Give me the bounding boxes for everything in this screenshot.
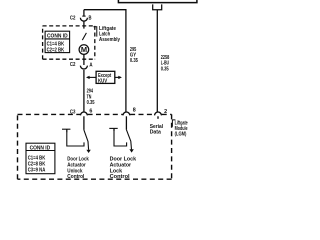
power distribution box (cut off at top) bbox=[118, 0, 196, 3]
Except KUV tag with arrows bbox=[87, 76, 96, 78]
connector C3 terminal 6 (cap) bbox=[81, 112, 88, 115]
label Liftgate Module (LGM) with leader bracket bbox=[172, 120, 175, 127]
liftgate module dashed box bbox=[18, 114, 172, 179]
lock switch blade bbox=[126, 130, 131, 150]
svg-text:Control: Control bbox=[110, 174, 130, 180]
svg-text:0.35: 0.35 bbox=[130, 58, 139, 64]
svg-text:Data: Data bbox=[150, 129, 162, 135]
svg-text:8: 8 bbox=[133, 108, 136, 114]
svg-text:C2: C2 bbox=[70, 15, 76, 21]
label 2258 L-BU 0.35 bbox=[161, 55, 170, 72]
wire 295 stub below terminal 8 bbox=[125, 116, 127, 129]
svg-text:(LGM): (LGM) bbox=[175, 132, 187, 138]
label Liftgate Latch Assembly with leader bracket bbox=[93, 27, 96, 37]
svg-text:B: B bbox=[89, 15, 92, 21]
unlock switch blade bbox=[84, 130, 89, 150]
svg-text:0.35: 0.35 bbox=[161, 66, 170, 72]
label Door Lock Actuator Lock Control bbox=[110, 156, 137, 180]
serial data stub into module bbox=[157, 116, 159, 119]
svg-text:CONN ID: CONN ID bbox=[47, 34, 68, 40]
svg-text:CONN ID: CONN ID bbox=[30, 145, 51, 151]
svg-text:Assembly: Assembly bbox=[99, 37, 121, 43]
svg-text:6: 6 bbox=[89, 109, 92, 115]
label 294 TN 0.35 bbox=[87, 89, 96, 106]
svg-text:0.35: 0.35 bbox=[87, 100, 96, 106]
svg-text:KUV: KUV bbox=[98, 78, 108, 84]
wire serial data vertical 2258 bbox=[156, 10, 158, 112]
CONN ID table (module) bbox=[26, 143, 55, 174]
lock fixed contact T bbox=[109, 127, 117, 129]
unlock switch: stub below C3 bbox=[83, 116, 85, 130]
CONN ID table (latch) bbox=[45, 31, 70, 52]
svg-text:Control: Control bbox=[67, 174, 84, 180]
svg-text:A: A bbox=[89, 62, 92, 68]
wire 294 connector A to C3 bbox=[83, 70, 85, 112]
wire: top horizontal from latch to 295 drop bbox=[84, 10, 126, 112]
in-line connector U symbol under top box bbox=[153, 4, 162, 9]
label 295 GY 0.35 bbox=[130, 47, 139, 64]
latch switch blade bbox=[82, 33, 86, 40]
svg-text:C2: C2 bbox=[70, 62, 76, 68]
lock L wire bbox=[114, 131, 127, 146]
liftgate latch assembly dashed box bbox=[43, 26, 95, 59]
wire: vertical into liftgate latch bbox=[83, 10, 85, 17]
wire stub below connector B bbox=[83, 21, 85, 28]
terminal 8 (cap) bbox=[123, 112, 130, 115]
unlock fixed contact T bbox=[62, 128, 70, 130]
terminal 2 (cap) bbox=[155, 112, 162, 115]
motor M1 bbox=[79, 45, 89, 55]
svg-text:C2=2 BK: C2=2 BK bbox=[47, 47, 65, 53]
connector C2 terminal B (cup) bbox=[82, 15, 85, 17]
svg-text:M: M bbox=[81, 47, 87, 54]
svg-text:C3=9 NA: C3=9 NA bbox=[28, 167, 46, 173]
connector C2 terminal A (cup) bbox=[80, 66, 87, 69]
wire motor to connector A bbox=[83, 54, 85, 65]
label Door Lock Actuator Unlock Control bbox=[67, 156, 89, 180]
unlock L wire bbox=[67, 132, 84, 146]
